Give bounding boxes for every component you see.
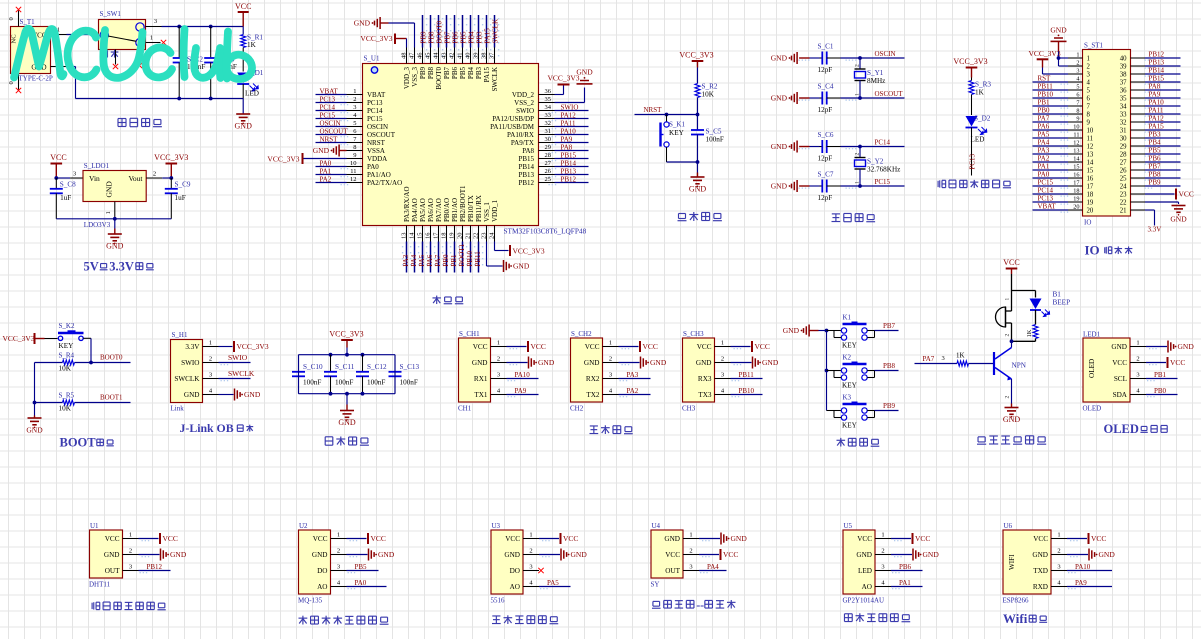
svg-text:GND: GND xyxy=(105,181,114,198)
svg-text:3: 3 xyxy=(529,564,532,571)
svg-text:TYPE-C-2P: TYPE-C-2P xyxy=(19,75,53,83)
svg-text:15: 15 xyxy=(1087,168,1094,175)
svg-text:VCC: VCC xyxy=(1179,190,1194,199)
svg-text:NPN: NPN xyxy=(1012,362,1027,370)
svg-text:1: 1 xyxy=(689,532,692,539)
svg-text:S_Y1: S_Y1 xyxy=(867,69,884,77)
svg-text:33: 33 xyxy=(1120,112,1127,119)
svg-text:VCC_3V3: VCC_3V3 xyxy=(154,153,188,162)
svg-text:VSS_2: VSS_2 xyxy=(514,99,534,107)
svg-text:PA1: PA1 xyxy=(320,168,332,176)
svg-text:32: 32 xyxy=(545,120,552,127)
svg-text:GND: GND xyxy=(104,551,120,559)
svg-text:2: 2 xyxy=(855,64,861,67)
svg-text:36: 36 xyxy=(545,88,552,95)
svg-text:2: 2 xyxy=(721,356,724,363)
svg-text:U2: U2 xyxy=(299,522,308,530)
svg-text:BOOT1: BOOT1 xyxy=(100,394,123,402)
svg-text:40: 40 xyxy=(1120,56,1127,63)
svg-text:GND: GND xyxy=(170,550,187,559)
svg-text:37: 37 xyxy=(1120,80,1127,87)
svg-text:PA9: PA9 xyxy=(515,387,527,395)
svg-text:PB6: PB6 xyxy=(451,67,459,80)
svg-text:2: 2 xyxy=(529,548,532,555)
svg-text:BOOT0: BOOT0 xyxy=(435,67,443,90)
svg-text:1: 1 xyxy=(105,211,112,214)
svg-text:SDA: SDA xyxy=(1113,391,1128,399)
svg-text:12: 12 xyxy=(1073,140,1079,147)
svg-text:31: 31 xyxy=(545,128,552,135)
svg-text:NRST: NRST xyxy=(644,106,663,114)
svg-text:47: 47 xyxy=(409,52,416,59)
svg-text:PA7: PA7 xyxy=(923,355,935,363)
svg-text:S_C13: S_C13 xyxy=(400,363,420,371)
svg-text:GND: GND xyxy=(354,19,371,28)
svg-text:GND: GND xyxy=(1111,343,1127,351)
svg-text:1: 1 xyxy=(1087,56,1090,63)
svg-text:32: 32 xyxy=(1120,120,1127,127)
svg-text:3: 3 xyxy=(497,372,500,379)
svg-text:1: 1 xyxy=(337,532,340,539)
svg-text:VBAT: VBAT xyxy=(320,88,339,96)
svg-text:PC13: PC13 xyxy=(1038,195,1054,203)
svg-text:S_U1: S_U1 xyxy=(364,55,380,63)
svg-text:44: 44 xyxy=(433,52,440,59)
svg-text:VCC: VCC xyxy=(163,534,178,543)
svg-text:PA6: PA6 xyxy=(1038,123,1050,131)
svg-text:2: 2 xyxy=(1005,334,1011,337)
svg-text:RXD: RXD xyxy=(1033,583,1048,591)
svg-text:PB6: PB6 xyxy=(1149,155,1162,163)
svg-text:1: 1 xyxy=(1136,340,1139,347)
svg-text:S_SW1: S_SW1 xyxy=(100,10,122,18)
svg-text:PA3: PA3 xyxy=(1038,147,1050,155)
svg-text:VCC: VCC xyxy=(585,343,600,351)
svg-text:GND: GND xyxy=(504,551,520,559)
svg-text:PA1: PA1 xyxy=(1038,163,1050,171)
svg-text:GND: GND xyxy=(538,358,555,367)
svg-text:VSS_1: VSS_1 xyxy=(483,202,491,222)
svg-text:5V: 5V xyxy=(84,260,99,274)
svg-text:1uF: 1uF xyxy=(60,194,71,202)
svg-text:PB1: PB1 xyxy=(1038,99,1051,107)
svg-text:9: 9 xyxy=(1076,116,1079,123)
svg-text:12: 12 xyxy=(350,176,357,183)
svg-text:PA9: PA9 xyxy=(1075,579,1087,587)
svg-text:13: 13 xyxy=(1073,148,1079,155)
svg-text:2: 2 xyxy=(689,548,692,555)
svg-text:VCC: VCC xyxy=(755,342,770,351)
svg-text:VCC_3V3: VCC_3V3 xyxy=(329,330,363,339)
svg-text:PB13: PB13 xyxy=(561,168,577,176)
svg-text:1: 1 xyxy=(609,340,612,347)
svg-text:PA2/TX/AO: PA2/TX/AO xyxy=(367,179,402,187)
svg-text:S_R4: S_R4 xyxy=(59,352,75,360)
svg-text:TX2: TX2 xyxy=(586,391,600,399)
svg-text:VCC: VCC xyxy=(563,534,578,543)
svg-text:PC13: PC13 xyxy=(367,99,383,107)
svg-text:U1: U1 xyxy=(90,522,99,530)
svg-text:Vin: Vin xyxy=(89,174,100,183)
svg-text:1: 1 xyxy=(150,35,153,42)
svg-text:7: 7 xyxy=(1076,100,1079,107)
svg-text:VCC: VCC xyxy=(371,534,386,543)
svg-text:11: 11 xyxy=(1073,132,1079,139)
svg-text:PB1: PB1 xyxy=(450,254,458,267)
svg-text:1: 1 xyxy=(497,340,500,347)
svg-text:DO: DO xyxy=(510,567,520,575)
svg-text:OSCOUT: OSCOUT xyxy=(320,128,349,136)
svg-text:1: 1 xyxy=(881,532,884,539)
svg-text:16: 16 xyxy=(1087,176,1094,183)
svg-text:S_CH2: S_CH2 xyxy=(571,330,592,338)
svg-text:PC14: PC14 xyxy=(875,139,891,147)
svg-text:PB10: PB10 xyxy=(739,387,755,395)
svg-text:16: 16 xyxy=(1073,172,1079,179)
svg-text:22: 22 xyxy=(473,233,480,240)
svg-text:PB14: PB14 xyxy=(561,160,577,168)
svg-text:43: 43 xyxy=(441,53,448,60)
svg-text:VCC_3V3: VCC_3V3 xyxy=(679,51,713,60)
svg-text:RST: RST xyxy=(1038,75,1052,83)
svg-text:PB7: PB7 xyxy=(883,322,896,330)
svg-text:3: 3 xyxy=(1087,72,1091,79)
svg-text:GND: GND xyxy=(696,359,712,367)
svg-text:VCC_3V3: VCC_3V3 xyxy=(1029,49,1061,58)
svg-text:SWIO: SWIO xyxy=(228,353,248,362)
svg-text:6: 6 xyxy=(1087,96,1091,103)
svg-text:LDO3V3: LDO3V3 xyxy=(84,221,111,229)
svg-text:1: 1 xyxy=(209,340,212,347)
svg-text:PC14: PC14 xyxy=(1038,187,1054,195)
svg-text:OLED: OLED xyxy=(1088,359,1096,378)
svg-text:VCC: VCC xyxy=(105,535,120,543)
svg-text:AO: AO xyxy=(862,583,872,591)
svg-text:LED1: LED1 xyxy=(1083,331,1101,339)
svg-text:K3: K3 xyxy=(843,394,852,402)
svg-text:GND: GND xyxy=(1050,26,1067,35)
svg-text:GND: GND xyxy=(338,418,356,427)
svg-text:3: 3 xyxy=(353,104,356,111)
svg-text:14: 14 xyxy=(409,232,416,239)
svg-text:S_R3: S_R3 xyxy=(975,81,991,89)
svg-text:PC15: PC15 xyxy=(320,112,336,120)
svg-text:PA4: PA4 xyxy=(707,563,719,571)
svg-text:3: 3 xyxy=(73,171,76,178)
svg-text:38: 38 xyxy=(481,53,488,60)
svg-text:GP2Y1014AU: GP2Y1014AU xyxy=(843,597,885,605)
svg-text:12pF: 12pF xyxy=(818,66,833,74)
svg-text:1uF: 1uF xyxy=(175,194,186,202)
svg-text:10: 10 xyxy=(1073,124,1079,131)
svg-text:15: 15 xyxy=(1073,164,1079,171)
svg-text:PA0: PA0 xyxy=(1038,171,1050,179)
svg-text:1: 1 xyxy=(129,532,132,539)
svg-text:5: 5 xyxy=(1087,88,1091,95)
svg-text:VCC: VCC xyxy=(1112,359,1127,367)
svg-text:PA12: PA12 xyxy=(1149,115,1165,123)
svg-text:OSCOUT: OSCOUT xyxy=(875,90,904,98)
svg-text:PA2: PA2 xyxy=(1038,155,1050,163)
svg-text:BEEP: BEEP xyxy=(1053,299,1071,307)
svg-text:3: 3 xyxy=(1076,68,1079,75)
svg-text:CH2: CH2 xyxy=(570,405,584,413)
svg-text:AO: AO xyxy=(510,583,520,591)
svg-text:PB15: PB15 xyxy=(561,152,577,160)
svg-text:PA7: PA7 xyxy=(1038,115,1050,123)
svg-text:1: 1 xyxy=(1005,298,1011,301)
svg-text:PB0/AO: PB0/AO xyxy=(443,198,451,222)
svg-text:3: 3 xyxy=(721,372,724,379)
svg-text:S_C12: S_C12 xyxy=(367,363,387,371)
svg-text:18: 18 xyxy=(441,233,448,240)
svg-text:GND: GND xyxy=(106,242,124,251)
svg-text:VSS_3: VSS_3 xyxy=(411,67,419,87)
svg-text:PA11: PA11 xyxy=(1149,107,1165,115)
svg-text:S_CH1: S_CH1 xyxy=(459,330,480,338)
svg-text:PA9: PA9 xyxy=(1149,91,1161,99)
svg-text:PB5: PB5 xyxy=(1149,147,1162,155)
svg-text:PB10/TX: PB10/TX xyxy=(467,195,475,222)
svg-text:SWCLK: SWCLK xyxy=(174,375,200,383)
svg-text:PB5: PB5 xyxy=(355,563,368,571)
svg-text:19: 19 xyxy=(1073,196,1079,203)
svg-text:28: 28 xyxy=(545,152,552,159)
svg-text:PB10: PB10 xyxy=(1038,91,1054,99)
svg-text:GND: GND xyxy=(1003,415,1021,424)
svg-text:48: 48 xyxy=(401,53,408,60)
svg-text:PA9: PA9 xyxy=(561,136,573,144)
svg-text:PB10: PB10 xyxy=(466,250,474,266)
svg-text:GND: GND xyxy=(771,182,788,191)
svg-text:PB11: PB11 xyxy=(1038,83,1054,91)
svg-text:1: 1 xyxy=(529,532,532,539)
svg-text:S_K2: S_K2 xyxy=(59,322,75,330)
svg-text:21: 21 xyxy=(465,233,472,240)
svg-text:PB0: PB0 xyxy=(1154,387,1167,395)
svg-text:VDD_2: VDD_2 xyxy=(512,91,535,99)
svg-text:23: 23 xyxy=(481,233,488,240)
svg-text:Link: Link xyxy=(171,405,185,413)
svg-text:3: 3 xyxy=(129,564,132,571)
svg-text:24: 24 xyxy=(489,232,496,239)
svg-text:BOOT1: BOOT1 xyxy=(458,243,466,266)
svg-text:PB4: PB4 xyxy=(467,67,475,80)
svg-text:VSSA: VSSA xyxy=(367,147,385,155)
svg-text:PA2: PA2 xyxy=(320,176,332,184)
svg-text:20: 20 xyxy=(1087,208,1094,215)
svg-text:CH1: CH1 xyxy=(458,405,472,413)
svg-text:S_C7: S_C7 xyxy=(818,171,834,179)
svg-text:PB6: PB6 xyxy=(899,563,912,571)
svg-text:OLED: OLED xyxy=(1083,405,1102,413)
svg-text:S_C11: S_C11 xyxy=(335,363,355,371)
svg-text:13: 13 xyxy=(1087,152,1094,159)
svg-text:GND: GND xyxy=(771,54,788,63)
svg-text:27: 27 xyxy=(545,160,552,167)
svg-text:PB0: PB0 xyxy=(1038,107,1051,115)
svg-text:14: 14 xyxy=(1073,156,1080,163)
svg-text:25: 25 xyxy=(545,176,552,183)
svg-text:PA4: PA4 xyxy=(1038,139,1050,147)
svg-text:VBAT: VBAT xyxy=(367,91,386,99)
svg-text:VCC_3V3: VCC_3V3 xyxy=(237,342,269,351)
svg-text:PA10: PA10 xyxy=(1075,563,1091,571)
svg-text:GND: GND xyxy=(689,185,707,194)
svg-text:PC14: PC14 xyxy=(320,104,336,112)
svg-text:AO: AO xyxy=(317,583,327,591)
svg-text:GND: GND xyxy=(378,550,395,559)
svg-text:VCC: VCC xyxy=(1003,258,1019,267)
svg-text:PB11: PB11 xyxy=(474,251,482,267)
svg-text:3: 3 xyxy=(337,564,340,571)
svg-text:PA7/AO: PA7/AO xyxy=(435,198,443,222)
svg-text:10K: 10K xyxy=(59,365,72,373)
svg-text:NC: NC xyxy=(11,34,18,43)
svg-text:GND: GND xyxy=(650,358,667,367)
svg-text:3: 3 xyxy=(609,372,612,379)
svg-text:2: 2 xyxy=(1136,356,1139,363)
svg-text:OSCIN: OSCIN xyxy=(367,123,388,131)
svg-text:J-Link OB: J-Link OB xyxy=(180,421,234,435)
svg-text:PC13: PC13 xyxy=(320,96,336,104)
svg-text:S_CH3: S_CH3 xyxy=(683,330,704,338)
svg-text:10K: 10K xyxy=(59,405,72,413)
svg-text:PB13: PB13 xyxy=(1149,59,1165,67)
svg-text:3.3V: 3.3V xyxy=(1148,226,1162,234)
svg-text:7: 7 xyxy=(1087,104,1091,111)
svg-text:S_R2: S_R2 xyxy=(702,83,718,91)
svg-text:S_C8: S_C8 xyxy=(60,181,76,189)
svg-text:2: 2 xyxy=(337,548,340,555)
svg-text:PA10/RX: PA10/RX xyxy=(507,131,534,139)
svg-text:VCC_3V3: VCC_3V3 xyxy=(360,34,392,43)
svg-text:GND: GND xyxy=(571,550,588,559)
svg-text:14: 14 xyxy=(1087,160,1094,167)
svg-text:100nF: 100nF xyxy=(706,136,724,144)
svg-text:37: 37 xyxy=(489,52,496,59)
svg-text:8: 8 xyxy=(1087,112,1091,119)
svg-text:PB15: PB15 xyxy=(518,155,534,163)
svg-text:SWCLK: SWCLK xyxy=(491,67,499,92)
svg-text:DO: DO xyxy=(317,567,327,575)
svg-text:VCC_3V3: VCC_3V3 xyxy=(547,74,579,83)
svg-text:2: 2 xyxy=(353,96,356,103)
svg-text:PA9/TX: PA9/TX xyxy=(511,139,534,147)
svg-text:S_C10: S_C10 xyxy=(303,363,323,371)
svg-text:PB13: PB13 xyxy=(518,171,534,179)
svg-text:PB9: PB9 xyxy=(883,402,896,410)
svg-text:39: 39 xyxy=(473,53,480,60)
svg-text:17: 17 xyxy=(433,232,440,239)
svg-text:OSCIN: OSCIN xyxy=(875,50,896,58)
svg-text:CH3: CH3 xyxy=(682,405,696,413)
svg-text:S_C5: S_C5 xyxy=(706,128,722,136)
svg-text:PA8: PA8 xyxy=(522,147,534,155)
svg-text:100nF: 100nF xyxy=(303,379,321,387)
svg-text:PA12: PA12 xyxy=(561,112,577,120)
svg-text:OLED: OLED xyxy=(1104,422,1139,436)
svg-text:S_C1: S_C1 xyxy=(818,43,834,51)
svg-text:PB15: PB15 xyxy=(1149,75,1165,83)
svg-text:PB11: PB11 xyxy=(739,371,755,379)
svg-text:PA1: PA1 xyxy=(899,579,911,587)
svg-text:GND: GND xyxy=(783,326,800,335)
svg-text:PB9: PB9 xyxy=(419,67,427,80)
svg-text:8MHz: 8MHz xyxy=(867,77,885,85)
svg-text:S_ST1: S_ST1 xyxy=(1084,42,1104,50)
svg-text:20: 20 xyxy=(457,233,464,240)
svg-text:100nF: 100nF xyxy=(367,379,385,387)
svg-text:PA8: PA8 xyxy=(1149,83,1161,91)
svg-text:NRST: NRST xyxy=(367,139,386,147)
svg-text:PA10: PA10 xyxy=(1149,99,1165,107)
svg-text:PA0: PA0 xyxy=(320,160,332,168)
svg-text:1: 1 xyxy=(1076,52,1079,59)
svg-text:30: 30 xyxy=(1120,136,1127,143)
svg-text:PB3: PB3 xyxy=(475,67,483,80)
svg-text:41: 41 xyxy=(457,53,464,60)
svg-text:2: 2 xyxy=(1076,60,1079,67)
svg-text:S_T1: S_T1 xyxy=(20,18,36,26)
svg-text:PB9: PB9 xyxy=(1149,179,1162,187)
svg-text:S_C4: S_C4 xyxy=(818,83,834,91)
svg-text:SWIO: SWIO xyxy=(181,359,199,367)
svg-text:LED: LED xyxy=(858,567,872,575)
svg-text:SWCLK: SWCLK xyxy=(228,369,255,378)
svg-text:DHT11: DHT11 xyxy=(89,581,111,589)
svg-text:PA4/AO: PA4/AO xyxy=(411,198,419,222)
svg-text:PA10: PA10 xyxy=(561,128,577,136)
svg-text:PB7: PB7 xyxy=(443,67,451,80)
svg-text:100nF: 100nF xyxy=(335,379,353,387)
svg-text:18: 18 xyxy=(1073,188,1079,195)
svg-text:PB3: PB3 xyxy=(1149,131,1162,139)
svg-text:8: 8 xyxy=(353,144,356,151)
svg-text:GND: GND xyxy=(856,551,872,559)
svg-text:Vout: Vout xyxy=(128,174,143,183)
svg-text:PB1: PB1 xyxy=(1154,371,1167,379)
svg-text:15: 15 xyxy=(417,233,424,240)
svg-text:KEY: KEY xyxy=(669,129,685,137)
svg-text:VBAT: VBAT xyxy=(1038,203,1057,211)
svg-text:25: 25 xyxy=(1120,176,1127,183)
svg-text:24: 24 xyxy=(1120,184,1127,191)
svg-text:TX1: TX1 xyxy=(474,391,488,399)
svg-text:TX3: TX3 xyxy=(698,391,712,399)
svg-text:GND: GND xyxy=(576,68,593,77)
svg-text:PA12/USB/DP: PA12/USB/DP xyxy=(492,115,534,123)
svg-text:PB8: PB8 xyxy=(883,362,896,370)
svg-text:20: 20 xyxy=(1073,204,1079,211)
svg-text:GND: GND xyxy=(184,391,200,399)
svg-text:GND: GND xyxy=(26,426,43,435)
svg-text:GND: GND xyxy=(762,358,779,367)
svg-text:VCC: VCC xyxy=(665,551,680,559)
svg-text:VCC_3V3: VCC_3V3 xyxy=(513,247,545,256)
svg-text:27: 27 xyxy=(1120,160,1127,167)
svg-text:PB11/RX: PB11/RX xyxy=(475,195,483,222)
svg-text:Wifi: Wifi xyxy=(1003,611,1028,626)
svg-text:PB8: PB8 xyxy=(427,67,435,80)
svg-text:GND: GND xyxy=(235,122,253,131)
svg-text:PA3/RX/AO: PA3/RX/AO xyxy=(403,186,411,222)
svg-text:1K: 1K xyxy=(247,41,257,49)
svg-text:2: 2 xyxy=(1005,396,1011,399)
svg-text:11: 11 xyxy=(1087,136,1094,143)
svg-text:3: 3 xyxy=(881,564,884,571)
svg-text:NRST: NRST xyxy=(320,136,339,144)
